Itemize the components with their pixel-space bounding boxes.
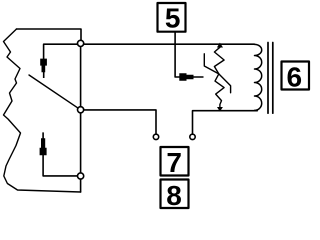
node B (middle junction circle) [78,107,84,113]
wiper arrow (up) of sender lower element [40,132,47,155]
wire: middle wire from node B to breaker terminal 1 [84,110,156,134]
breaker terminal 1 (open contact circle) [153,134,158,139]
resistor R (ballast) zigzag body [214,44,224,107]
wire: wiper 1 connection to node A [44,44,78,59]
callout 6 box [282,62,310,90]
callout 5 box [158,3,186,32]
callout 7 box [161,147,189,176]
resistor tap lever upper [204,54,219,74]
wire: terminal 2 riser and bottom wire to coil [193,111,258,135]
wiper arrow (right, pointing at ballast resistor tap) [179,73,203,81]
inductor L (coil primary winding) [255,44,262,110]
resistor R (ballast) bottom connection arrow [217,107,223,112]
wire: top wire from node A to coil [84,43,255,45]
svg-text:7: 7 [166,147,182,178]
callout 8 box [161,180,189,209]
wire: lower wiper stem to node C [43,155,78,176]
svg-text:5: 5 [165,3,181,34]
variable resistor (sender) case: jagged left edge [4,29,81,192]
svg-text:8: 8 [166,180,182,211]
transformer core line 1 [267,43,269,114]
wiper lever (diagonal) of sender [29,75,81,110]
node A (top junction circle) [78,40,84,46]
transformer core line 2 [272,43,274,114]
wire: right bus of sender [80,46,82,192]
wiper arrow (down) of sender upper element [40,59,47,78]
wire: top edge of sender case [17,29,82,40]
resistor R (ballast) top connection arrow [217,43,223,48]
node C (bottom junction circle) [78,173,84,179]
svg-text:6: 6 [287,61,303,92]
resistor tap lever lower [219,74,231,93]
breaker terminal 2 (open contact circle) [190,134,195,139]
wire: stem from callout 5 to wiper arrow [175,33,180,78]
